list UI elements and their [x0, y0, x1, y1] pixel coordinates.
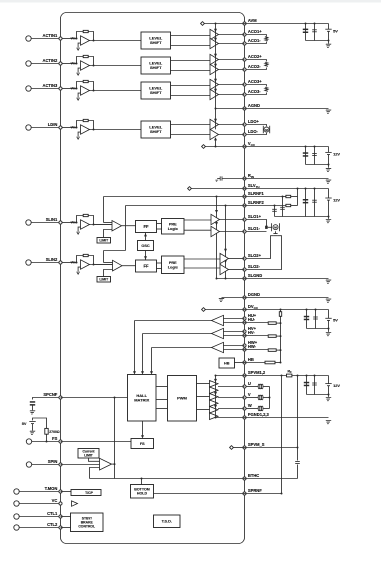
wire Vcc cap1 stem	[305, 147, 307, 165]
bias arrow SLO2-	[224, 260, 227, 263]
wire SLV bottom rail	[275, 216, 329, 218]
wire SLO2- output	[229, 269, 245, 271]
node SPVM_S diamond	[230, 446, 234, 450]
actuator load ACO3	[265, 87, 268, 91]
output transistor Q3	[210, 394, 219, 401]
wire SLV cap2 stem	[314, 189, 316, 217]
junction SLV rail-gnd	[328, 216, 330, 218]
pin HW- (right)	[243, 344, 257, 351]
capacitor C15 SPCNF	[30, 401, 35, 405]
wire Vcc supply stem	[328, 147, 330, 153]
junction SPRNF	[281, 493, 283, 495]
wire U2 ACTIN2 output	[90, 65, 142, 67]
svg-text:HV-: HV-	[248, 330, 255, 335]
svg-text:SPVM_S: SPVM_S	[248, 442, 265, 447]
wire HW amp out	[152, 347, 212, 349]
wire U1 ACTIN1 input	[62, 38, 77, 40]
flip-flop FF2	[136, 260, 157, 272]
svg-text:LDIN: LDIN	[48, 122, 58, 127]
svg-text:SLIN1: SLIN1	[46, 217, 58, 222]
wire AVM cap1 stem	[305, 24, 307, 41]
actuator load ACO1	[265, 37, 268, 41]
thermal shutdown block T.S.D.	[154, 515, 181, 528]
pin HW+ (right)	[243, 340, 258, 347]
ground AGND	[325, 110, 331, 113]
node U4 LDIN input junction	[76, 127, 78, 129]
wire AVM supply to ground	[328, 31, 330, 43]
svg-text:PRE: PRE	[169, 222, 177, 226]
wire V to coil	[246, 397, 258, 399]
pin HB (right)	[243, 357, 254, 364]
junction A3 output	[114, 463, 116, 465]
pin VC (left)	[52, 498, 62, 505]
wire U4 LDIN feedback	[88, 121, 93, 130]
wire LDO+ output	[219, 124, 245, 126]
wire RIN stub	[217, 178, 220, 180]
hall matrix block	[128, 375, 157, 422]
resistor U4 LDIN feedback	[83, 119, 88, 121]
wire SLRNF2 return down2	[103, 251, 105, 263]
limiter block LIMIT1	[97, 238, 111, 244]
limiter block LIMIT2	[97, 277, 111, 283]
wire level-shift ACO2 out+	[171, 60, 211, 62]
bias arrow SLO1+	[215, 210, 218, 213]
ground SLGND	[325, 280, 331, 283]
junction DVcc hall bias	[280, 309, 282, 311]
svg-text:OSC: OSC	[141, 244, 149, 248]
junction SPVM rail-gnd	[328, 394, 330, 396]
node U5 SLIN1 input junction	[76, 222, 78, 224]
capacitor C12 SPVM electrolytic	[304, 382, 309, 386]
svg-text:CTL1: CTL1	[47, 511, 58, 516]
wire ACO1 load top	[246, 35, 266, 37]
wire SLRNF1 right	[245, 196, 283, 198]
driver transistor ACO2+ upper	[210, 54, 219, 64]
motor winding W	[258, 406, 263, 411]
junction star	[269, 397, 271, 399]
wire SLRNF2 filter cap stem	[274, 206, 276, 217]
svg-text:Logic: Logic	[168, 227, 178, 231]
wire FS to block	[61, 441, 132, 443]
wire SLGND to ground	[245, 278, 329, 280]
wire LDO- output	[219, 134, 245, 136]
driver transistor ACO3- lower	[210, 89, 219, 99]
wire SLVth rail	[191, 188, 244, 190]
resistor HW bias	[268, 349, 276, 352]
block HB	[219, 358, 235, 368]
wire U4 LDIN output	[90, 129, 142, 131]
wire A3 output	[112, 463, 115, 465]
svg-text:U: U	[248, 381, 251, 386]
wire SLRNF1 line	[104, 196, 245, 198]
junction SLRNF1 cap	[282, 196, 284, 198]
pin SLRNF1 (right)	[243, 191, 265, 198]
node AVM external diamond	[201, 22, 205, 26]
capacitor C1 AVM electrolytic	[303, 29, 308, 33]
wire HU- bias	[245, 322, 269, 324]
wire ACO1- output	[219, 43, 245, 45]
svg-text:W: W	[248, 403, 252, 408]
svg-text:LIMIT: LIMIT	[99, 238, 109, 242]
ground DGND	[325, 299, 331, 302]
terminal SLIN1	[26, 220, 31, 225]
power supply 5V (FS bias)	[22, 421, 36, 426]
wire level-shift ACO1 out-	[171, 45, 211, 47]
wire PGND line	[216, 417, 245, 419]
wire CTL1 to block	[61, 516, 71, 518]
arrow HW into hall matrix	[150, 371, 153, 374]
bias arrow ACO3-	[214, 89, 217, 92]
wire SPVM supply stem	[328, 376, 330, 384]
wire BTHC right	[245, 478, 298, 480]
wire AVM feed vertical	[215, 24, 217, 130]
svg-text:ACTIN1: ACTIN1	[43, 33, 59, 38]
junction SPVM cap2	[314, 375, 316, 377]
pre-logic block PRE2	[162, 256, 185, 274]
wire SLO1- to motor	[246, 231, 267, 233]
wire SLRNF2 return down	[125, 206, 127, 251]
wire matrix-pwm c	[156, 408, 168, 410]
power supply 12V (Vcc)	[325, 152, 340, 157]
svg-text:ACO3-: ACO3-	[248, 89, 261, 94]
wire BTHC long line	[90, 478, 245, 480]
block T/CP	[71, 490, 101, 496]
pin ACTIN3 (left)	[43, 83, 63, 90]
svg-text:VTH: VTH	[71, 62, 77, 66]
pin HV+ (right)	[243, 326, 257, 333]
wire FF1-PRE1 b	[157, 228, 162, 230]
op-amp comparator U4 LDIN	[81, 125, 90, 134]
wire coil W to star	[263, 408, 270, 410]
wire pwm out U	[197, 383, 210, 385]
pin VCC (right)	[243, 141, 256, 148]
wire SPCNF external	[33, 398, 60, 400]
node U1 ACTIN1 input junction	[76, 38, 78, 40]
wire SPIN to amp	[61, 464, 100, 466]
op-amp comparator U6 SLIN2	[81, 260, 90, 269]
wire U2 ACTIN2 inverting input	[78, 68, 80, 73]
wire coil V to star	[263, 397, 270, 399]
ground Vcc	[325, 168, 331, 171]
wire HU amp out	[135, 320, 212, 322]
vref arrow U1 ACTIN1	[77, 48, 80, 50]
junction SLGND b	[225, 278, 227, 280]
pin SLGND (right)	[243, 273, 262, 280]
wire SLO1+ output	[220, 219, 245, 221]
wire PRE1 out+	[184, 219, 211, 221]
bias arrow LDO+	[214, 119, 217, 122]
bottom hold block	[131, 485, 154, 499]
wire SLO1+ to motor	[246, 220, 267, 227]
bias arrow SLO1-	[215, 222, 218, 225]
svg-text:Logic: Logic	[168, 265, 178, 269]
wire level-shift LDO out-	[171, 134, 211, 136]
junction SLO2 feed	[225, 205, 227, 207]
bias arrow LDO- from Vcc	[214, 137, 217, 140]
wire U3 ACTIN3 inverting input	[78, 93, 80, 98]
svg-text:LIMIT: LIMIT	[99, 277, 109, 281]
wire Vcc cap bottom rail	[306, 164, 329, 166]
junction HW bias bus	[280, 349, 282, 351]
pin LDIN (left)	[48, 122, 62, 129]
op-amp comparator U5 SLIN1	[81, 220, 90, 229]
node SLO1 connector blob	[265, 226, 268, 229]
svg-text:LIMIT: LIMIT	[84, 453, 93, 457]
wire SLIN2 terminal to pin	[31, 262, 60, 264]
svg-text:SLO1+: SLO1+	[248, 214, 262, 219]
svg-text:AGND: AGND	[248, 103, 260, 108]
wire DGND internal	[222, 297, 245, 299]
ground DVcc	[325, 333, 331, 336]
wire SPVM feed vertical	[215, 376, 217, 418]
wire SPVM supply to ground	[328, 386, 330, 397]
svg-text:LDO-: LDO-	[248, 129, 259, 134]
wire SPVM cap1 stem	[306, 376, 308, 395]
junction Vcc cap2	[314, 146, 316, 148]
junction SLO1 feed	[216, 196, 218, 198]
wire SLRNF2 return to amp	[104, 262, 113, 264]
terminal CTL1	[14, 514, 19, 519]
svg-text:BTHC: BTHC	[248, 473, 259, 478]
svg-text:SHIFT: SHIFT	[150, 129, 162, 134]
capacitor C10 DVcc electrolytic	[304, 316, 309, 320]
pin SLIN2 (left)	[46, 257, 62, 264]
wire RIN right	[245, 178, 329, 180]
spindle motor M2	[272, 223, 280, 231]
wire LDO+ to load	[246, 125, 267, 127]
ground SPCNF	[29, 411, 35, 414]
svg-text:V: V	[248, 392, 251, 397]
wire Vcc rail	[205, 146, 244, 148]
driver transistor ACO3+ upper	[210, 79, 219, 89]
wire SPIN terminal to pin	[32, 464, 61, 466]
wire HU+ input	[224, 318, 245, 320]
svg-text:VTH: VTH	[71, 221, 77, 225]
wire 5V to ground	[32, 424, 34, 431]
pin HU+ (right)	[243, 313, 257, 320]
pin HU- (right)	[243, 317, 256, 324]
svg-text:VTH: VTH	[71, 261, 77, 265]
resistor R2 SLRNF2	[286, 204, 291, 206]
svg-text:HB: HB	[248, 357, 254, 362]
pin SLO2+ (right)	[243, 253, 262, 260]
wire U1 ACTIN1 output	[90, 40, 142, 42]
wire CTL1 terminal to pin	[19, 516, 60, 518]
wire Vcc to caps	[245, 146, 329, 148]
wire FF2-PRE2 b	[157, 268, 162, 270]
wire HV- input	[224, 335, 245, 337]
ground PGND	[325, 421, 331, 424]
junction SLV cap2	[314, 188, 316, 190]
power supply 5V (AVM)	[325, 29, 338, 34]
svg-text:FS: FS	[140, 442, 145, 446]
wire current limit to amp	[89, 458, 100, 461]
wire SPCNF to matrix	[61, 397, 128, 399]
svg-text:SHIFT: SHIFT	[150, 90, 162, 95]
junction SPVM v1	[281, 375, 283, 377]
wire CTL2 terminal to pin	[19, 527, 60, 529]
wire U2 ACTIN2 feedback	[88, 57, 93, 66]
wire U3 ACTIN3 feedback left	[77, 82, 84, 89]
svg-text:12V: 12V	[333, 383, 340, 388]
svg-text:DGND: DGND	[248, 292, 260, 297]
wire SPCNF cap to ground	[32, 405, 34, 410]
wire SPVM cap bottom rail	[307, 394, 329, 396]
pin ACO2+ (right)	[243, 54, 262, 61]
pin W (right)	[243, 403, 252, 410]
wire matrix-pwm b	[156, 399, 168, 401]
wire ACO3 load bottom	[246, 93, 266, 95]
junction HV bias bus	[280, 335, 282, 337]
junction SLVth bus	[297, 188, 299, 190]
wire motor center stem	[275, 231, 277, 233]
wire SPVM cap2 stem	[314, 376, 316, 395]
level-shift block LS2	[141, 57, 171, 74]
wire A1 to FF1	[122, 225, 136, 227]
junction AVM cap2	[314, 23, 316, 25]
motor winding U	[258, 384, 263, 389]
svg-text:FF: FF	[143, 224, 149, 229]
svg-text:SLGND: SLGND	[248, 273, 262, 278]
wire HV- bias	[245, 335, 269, 337]
junction SPVM_S	[297, 447, 299, 449]
wire LDO- to load	[246, 133, 267, 135]
svg-text:SLO1-: SLO1-	[248, 226, 261, 231]
wire SPVM_S line	[233, 447, 244, 449]
resistor U3 ACTIN3 feedback	[83, 80, 88, 82]
driver transistor LDO- lower	[210, 129, 219, 139]
svg-text:SHIFT: SHIFT	[150, 40, 162, 45]
pin AVM (right)	[243, 18, 257, 25]
wire HU bias to bus	[276, 322, 280, 324]
bias arrow ACO2-	[214, 64, 217, 67]
wire HV+ input	[224, 331, 245, 333]
wire SLV cap1 stem	[305, 189, 307, 217]
pin SLO1- (right)	[243, 226, 261, 233]
pin PGND1,2,3 (right)	[243, 412, 270, 419]
wire LDIN terminal to pin	[31, 127, 60, 129]
flip-flop FF1	[136, 221, 157, 233]
wire SPVM_S vertical bottom	[297, 465, 299, 479]
wire HU to hall matrix	[134, 321, 136, 374]
wire U4 LDIN input	[62, 127, 77, 129]
wire W to coil	[246, 408, 258, 410]
wire HW- bias	[245, 349, 269, 351]
svg-text:AVM: AVM	[248, 18, 257, 23]
capacitor C11 DVcc ceramic	[313, 317, 318, 319]
bias arrow ACO2+	[214, 54, 217, 57]
wire ACTIN3 terminal to pin	[31, 88, 60, 90]
junction HB bus	[280, 362, 282, 364]
wire SLRNF1 return down	[103, 197, 105, 223]
op-amp comparator U2 ACTIN2	[81, 61, 90, 70]
wire SPRNF right	[245, 493, 282, 495]
pin SPVM1,2 (right)	[243, 370, 266, 377]
power supply 12V (SLV)	[325, 197, 340, 202]
resistor U6 SLIN2 feedback	[83, 254, 88, 256]
svg-text:SLIN2: SLIN2	[46, 257, 58, 262]
wire HV to hall matrix	[142, 334, 144, 374]
wire U1 ACTIN1 feedback left	[77, 32, 84, 39]
junction Vcc feed	[215, 146, 217, 148]
junction Vcc rail-gnd	[328, 164, 330, 166]
pin SLO1+ (right)	[243, 214, 262, 221]
amplifier A3 current limit	[100, 458, 112, 470]
driver transistor ACO2- lower	[210, 64, 219, 74]
wire U4 LDIN inverting input	[78, 132, 80, 137]
wire blob to motor	[268, 226, 272, 228]
wire SLV supply stem	[328, 189, 330, 199]
resistor R1 SLRNF1	[286, 195, 291, 197]
wire AVM supply stem	[328, 24, 330, 30]
wire ACO1+ output	[219, 34, 245, 36]
junction PGND feed	[215, 417, 217, 419]
wire U to coil	[246, 386, 258, 388]
svg-text:5V: 5V	[333, 318, 338, 323]
wire U5 SLIN1 feedback left	[77, 216, 84, 223]
svg-text:VTH: VTH	[71, 126, 77, 130]
wire comparator to A1	[94, 224, 113, 226]
svg-text:MATRIX: MATRIX	[134, 397, 149, 402]
ground AVM	[325, 44, 331, 47]
arrow HU into hall matrix	[133, 371, 136, 374]
wire SPVM to SPRNF vertical	[281, 376, 283, 494]
svg-text:SLO2+: SLO2+	[248, 253, 262, 258]
ground RIN	[325, 180, 331, 183]
capacitor C14 bottom hold	[295, 462, 300, 464]
junction DVcc rail-gnd	[328, 328, 330, 330]
wire ACO2+ output	[219, 59, 245, 61]
svg-text:12V: 12V	[333, 197, 340, 202]
wire level-shift ACO1 out+	[171, 35, 211, 37]
node U1 ACTIN1 output	[93, 40, 95, 42]
wire A3 feedback	[90, 468, 100, 479]
wire V output	[218, 397, 245, 399]
node DVcc diamond	[202, 308, 206, 312]
wire SPVM left	[216, 375, 245, 377]
resistor R3 hall bias top	[279, 312, 281, 317]
resistor Rf SPVM	[287, 374, 292, 377]
actuator load ACO2	[265, 62, 268, 66]
wire U4 LDIN feedback left	[77, 121, 84, 128]
wire AVM to caps	[245, 23, 329, 25]
resistor U1 ACTIN1 feedback	[83, 30, 88, 32]
wire Vcc cap2 stem	[314, 147, 316, 165]
hall amplifier HW	[212, 342, 224, 352]
svg-text:5V: 5V	[333, 29, 338, 34]
resistor R4 HB	[265, 361, 275, 364]
pin RIN (right)	[243, 173, 254, 180]
arrow OSC-FF1	[144, 233, 147, 236]
wire AGND to ground	[245, 108, 329, 110]
wire ACO2- output	[219, 69, 245, 71]
wire U1 ACTIN1 feedback	[88, 32, 93, 41]
wire SPVM right a	[245, 375, 287, 377]
pin V (right)	[243, 392, 251, 399]
wire RIN left	[222, 178, 245, 180]
output transistor Q1	[210, 381, 219, 388]
wire U2 ACTIN2 feedback left	[77, 57, 84, 64]
motor winding V	[258, 395, 263, 400]
wire HV amp out	[143, 333, 212, 335]
node SLVth diamond	[188, 187, 192, 191]
wire W output	[218, 408, 245, 410]
arrow matrix-FS	[141, 435, 144, 438]
wire OSC to FF2	[145, 251, 147, 261]
terminal LDIN	[26, 125, 31, 130]
bias arrow ACO3+	[214, 79, 217, 82]
terminal ACTIN2	[26, 61, 31, 66]
